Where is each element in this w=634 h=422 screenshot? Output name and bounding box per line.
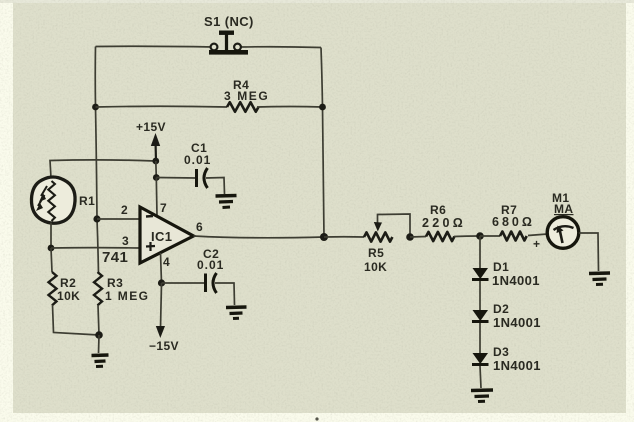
- svg-text:1N4001: 1N4001: [493, 358, 541, 373]
- svg-text:S1 (NC): S1 (NC): [204, 14, 254, 29]
- resistor R4: [227, 102, 259, 112]
- wire: D1 to D2: [479, 281, 481, 310]
- wire: C1 right lead to ground: [206, 178, 225, 195]
- supply -15V arrow: [156, 326, 165, 338]
- meter M1: [547, 217, 579, 249]
- svg-text:10K: 10K: [364, 260, 387, 274]
- wire: pin 3 input: [51, 247, 140, 249]
- wire: output to R5: [324, 236, 364, 238]
- stray mark bottom center: [315, 417, 318, 420]
- wire: meter to ground: [579, 233, 599, 271]
- wire: R1 bottom to pin3 node: [50, 223, 52, 249]
- svg-text:MA: MA: [554, 202, 573, 216]
- capacitor C1: [197, 168, 208, 188]
- junction: diode node: [476, 232, 484, 240]
- svg-text:R3: R3: [107, 276, 123, 290]
- svg-text:−15V: −15V: [149, 339, 179, 353]
- diode D1: [472, 268, 489, 280]
- diode D2: [472, 310, 489, 322]
- junction: pin3 node: [48, 245, 55, 252]
- svg-text:10K: 10K: [57, 289, 80, 303]
- svg-text:R1: R1: [79, 194, 95, 208]
- wire: R7 to meter: [528, 234, 548, 236]
- svg-text:D3: D3: [493, 345, 509, 359]
- wire: pin 7 supply: [155, 178, 158, 217]
- svg-text:4: 4: [163, 255, 170, 269]
- resistor R6: [426, 232, 454, 241]
- wire: pin 2 input: [97, 218, 140, 220]
- resistor R2: [49, 248, 100, 335]
- capacitor C2: [206, 273, 217, 293]
- wire: to R7: [480, 235, 500, 237]
- svg-text:D2: D2: [493, 302, 509, 316]
- svg-text:741: 741: [102, 249, 128, 266]
- svg-text:0.01: 0.01: [184, 153, 211, 167]
- junction: R5/R6 node: [406, 233, 414, 241]
- diode D3: [472, 353, 489, 365]
- svg-text:3: 3: [122, 234, 129, 248]
- resistor R3: [94, 272, 102, 335]
- junction: ground node R2/R3: [95, 331, 103, 339]
- ground (diodes): [471, 390, 493, 402]
- svg-text:1 MEG: 1 MEG: [105, 289, 149, 303]
- wire: right vertical from switch down to output node: [321, 48, 324, 238]
- svg-text:6: 6: [196, 220, 203, 234]
- wire: op-amp output: [194, 236, 325, 238]
- wire: switch loop top-left corner to S1 left contact: [96, 45, 214, 48]
- wire: -15V lead: [161, 283, 162, 328]
- switch S1: [209, 31, 248, 55]
- wire: C2 right lead to ground: [215, 283, 235, 305]
- wire: diode chain top: [479, 236, 481, 268]
- ground (C1): [216, 196, 237, 208]
- wire: left vertical (inverting node): [95, 47, 98, 275]
- wire: R1 top to +15V rail: [50, 160, 155, 178]
- junction: C1 tee: [153, 174, 160, 181]
- svg-text:680Ω: 680Ω: [492, 215, 535, 229]
- junction: +15V / R1: [152, 158, 159, 165]
- wire: C2 left lead: [162, 282, 206, 284]
- ground (C2): [226, 307, 247, 319]
- svg-text:2: 2: [121, 203, 128, 217]
- wire: R4 left segment: [96, 105, 228, 108]
- wire: pin 4 down to tee: [161, 253, 162, 283]
- wire: D2 to D3: [479, 323, 481, 353]
- supply +15V arrow: [151, 133, 160, 161]
- svg-text:0.01: 0.01: [197, 258, 224, 272]
- svg-text:7: 7: [160, 201, 167, 215]
- svg-text:+15V: +15V: [136, 120, 166, 134]
- junction: output node: [320, 233, 328, 241]
- junction: pin2 node: [93, 215, 100, 222]
- wire: +15V down to C1 tee: [155, 161, 158, 178]
- ground (meter): [589, 273, 610, 285]
- wire: to R6: [410, 236, 426, 239]
- resistor R7: [500, 232, 527, 241]
- svg-text:IC1: IC1: [151, 229, 172, 244]
- svg-text:D1: D1: [493, 260, 509, 274]
- wire: R4 right segment: [257, 106, 323, 109]
- photoresistor R1: [31, 177, 75, 223]
- wire: R6 to D node: [454, 235, 480, 238]
- svg-text:+: +: [533, 237, 540, 251]
- wire: D3 to ground: [480, 366, 481, 388]
- svg-text:220Ω: 220Ω: [422, 216, 466, 230]
- svg-text:3 MEG: 3 MEG: [224, 89, 269, 103]
- op-amp U1 (IC1 741): [140, 207, 194, 263]
- junction: R4 right node: [319, 104, 326, 111]
- svg-text:R2: R2: [60, 276, 76, 290]
- potentiometer R5: [364, 214, 410, 242]
- svg-text:1N4001: 1N4001: [492, 273, 540, 288]
- junction: pin4 tee: [158, 279, 165, 286]
- wire: to ground: [98, 335, 101, 353]
- ground (R2/R3): [92, 355, 109, 367]
- wire: S1 right contact to right corner: [240, 46, 321, 49]
- wire: C1 left lead: [156, 177, 196, 180]
- junction: R4 left node: [92, 104, 99, 111]
- svg-text:1N4001: 1N4001: [493, 315, 541, 330]
- svg-text:R5: R5: [368, 246, 384, 260]
- svg-text:R6: R6: [430, 203, 446, 217]
